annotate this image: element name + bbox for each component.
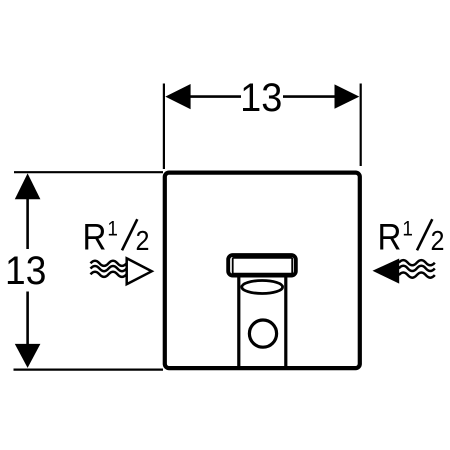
wire top dimension line right segment	[283, 95, 336, 98]
wire top dimension line left segment	[189, 95, 241, 98]
valve shoulder ellipse	[242, 281, 283, 294]
wire left extension line top	[14, 171, 163, 173]
flow symbol left: open arrow	[127, 258, 152, 284]
arrowhead left-bottom	[15, 344, 41, 368]
arrowhead top-left	[165, 84, 190, 109]
svg-text:1: 1	[107, 218, 118, 241]
svg-text:R: R	[378, 217, 402, 258]
flow symbol right: filled arrow	[373, 259, 400, 284]
valve stem left edge	[237, 276, 240, 368]
valve circle (screw hole)	[249, 320, 276, 347]
wire left extension line bottom	[14, 369, 164, 371]
label R1/2 right	[378, 217, 445, 258]
svg-text:1: 1	[402, 218, 413, 241]
label R1/2 left	[83, 217, 150, 258]
handle outer	[228, 255, 296, 276]
plate (cover plate outline)	[165, 173, 360, 369]
svg-text:2: 2	[431, 225, 445, 256]
arrowhead left-top	[15, 173, 41, 199]
svg-text:R: R	[83, 217, 107, 258]
svg-text:13: 13	[240, 76, 282, 120]
svg-text:2: 2	[136, 225, 150, 256]
wire top extension line right	[360, 84, 362, 167]
flow symbol left: wavy lines	[91, 261, 127, 277]
arrowhead top-right	[335, 84, 360, 108]
flow symbol right: wavy lines	[399, 260, 435, 278]
wire left dimension line lower segment	[26, 292, 29, 346]
svg-text:13: 13	[5, 249, 46, 293]
wire left dimension line upper segment	[26, 197, 29, 249]
handle inner	[233, 258, 293, 274]
valve stem right edge	[284, 276, 287, 368]
wire top extension line left	[163, 84, 165, 170]
